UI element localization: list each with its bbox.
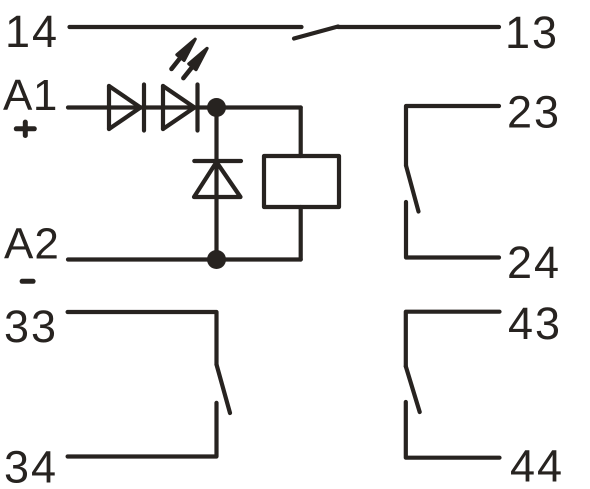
node junction A2 <box>207 250 226 269</box>
svg-text:13: 13 <box>505 7 559 58</box>
LED arrow 2 <box>180 45 211 80</box>
svg-text:24: 24 <box>507 237 561 288</box>
wire A2 line <box>68 257 301 261</box>
switch contact 23-24 blade <box>406 166 419 212</box>
wire coil branch bottom <box>299 207 303 260</box>
diode D1 anode bar <box>107 86 111 129</box>
LED arrow 1 <box>168 36 199 71</box>
wire 44 <box>406 402 500 458</box>
switch contact 13-14 blade <box>294 27 338 39</box>
svg-text:33: 33 <box>4 301 58 352</box>
plus sign (A1 polarity) <box>16 126 34 131</box>
wire 33 <box>68 312 217 365</box>
wire coil branch top <box>299 108 303 157</box>
node junction A1 <box>207 98 226 117</box>
relay coil K1 <box>264 156 339 207</box>
svg-text:34: 34 <box>4 442 58 489</box>
minus sign (A2 polarity) <box>22 279 33 284</box>
switch contact 33-34 blade <box>217 365 231 414</box>
svg-text:A2: A2 <box>4 220 60 269</box>
svg-text:43: 43 <box>508 298 562 349</box>
diode D3 triangle <box>194 162 241 197</box>
wire 14 to switch <box>70 25 302 29</box>
LED D2 triangle <box>163 86 195 129</box>
diode D1 triangle <box>109 86 141 129</box>
diode D3 cathode bar <box>194 159 241 163</box>
wire 23 <box>406 106 499 166</box>
wire 43 <box>406 312 500 367</box>
wire 24 <box>406 202 499 258</box>
wire 34 <box>68 403 217 457</box>
LED D2 anode bar <box>161 86 165 129</box>
svg-text:A1: A1 <box>3 71 58 120</box>
wire junction A1 down through diode D3 to junction A2 <box>214 108 218 260</box>
wire A1 line <box>68 105 301 109</box>
svg-text:44: 44 <box>510 441 564 489</box>
diode D1 cathode bar <box>142 85 146 131</box>
svg-text:23: 23 <box>507 87 561 138</box>
switch contact 43-44 blade <box>406 366 420 412</box>
wire switch to 13 <box>338 25 499 29</box>
svg-text:14: 14 <box>5 6 59 57</box>
LED D2 cathode bar <box>195 85 199 131</box>
